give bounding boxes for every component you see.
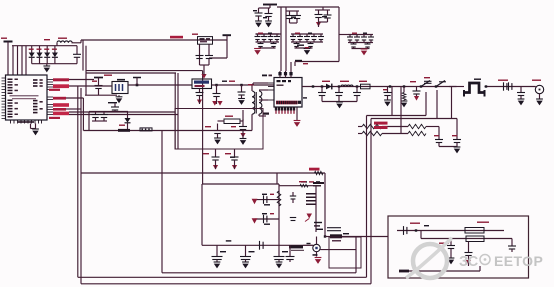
svg-text:ЗС: ЗС: [459, 254, 479, 270]
svg-text:EETOP: EETOP: [494, 253, 543, 269]
